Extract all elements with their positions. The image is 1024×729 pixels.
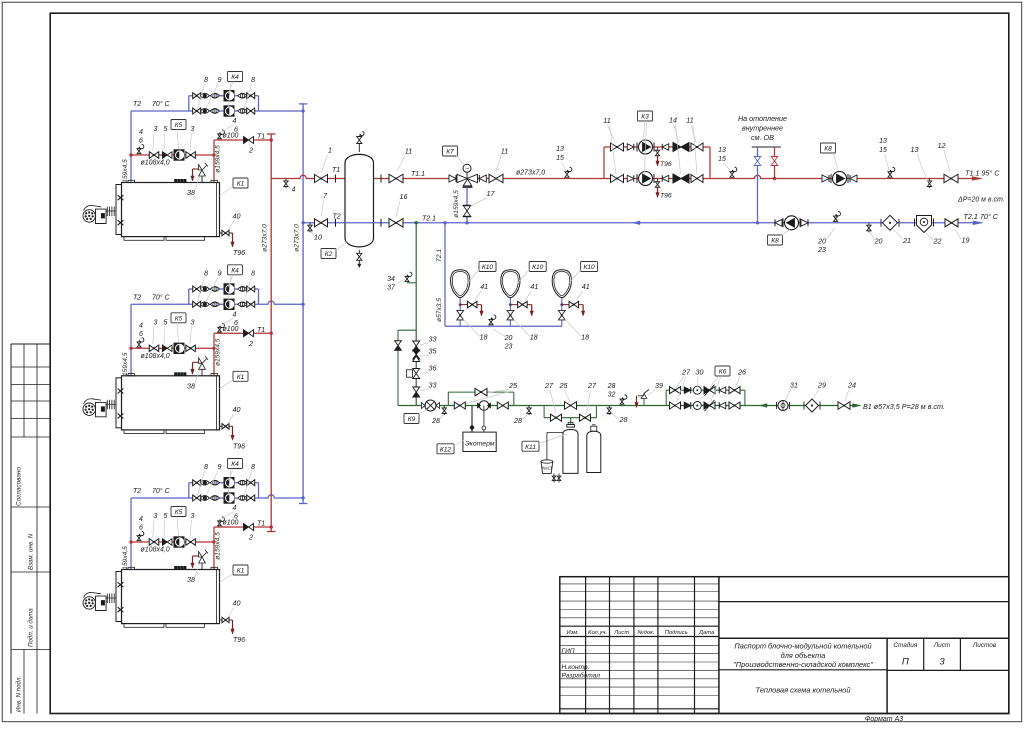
svg-text:5: 5 (164, 513, 168, 520)
svg-text:К7: К7 (446, 149, 454, 156)
svg-text:18: 18 (530, 333, 538, 342)
svg-text:18: 18 (480, 333, 488, 342)
svg-text:внутреннее: внутреннее (742, 124, 783, 133)
svg-text:25: 25 (508, 381, 518, 390)
svg-text:41: 41 (480, 282, 488, 291)
svg-text:40: 40 (233, 212, 241, 221)
svg-text:41: 41 (582, 282, 590, 291)
svg-text:4: 4 (292, 187, 296, 194)
svg-text:Т96: Т96 (233, 637, 245, 644)
svg-text:8: 8 (204, 268, 208, 277)
svg-text:6: 6 (139, 138, 143, 145)
svg-text:21: 21 (902, 236, 911, 245)
svg-text:Т1: Т1 (332, 167, 340, 174)
svg-text:13: 13 (556, 146, 564, 153)
svg-text:Т96: Т96 (660, 161, 672, 168)
svg-text:ø273х7,0: ø273х7,0 (516, 170, 545, 177)
svg-text:Подпись: Подпись (665, 630, 688, 636)
svg-text:К11: К11 (525, 444, 536, 451)
svg-text:27: 27 (681, 368, 691, 377)
svg-text:ø100: ø100 (223, 520, 239, 527)
svg-text:3: 3 (191, 319, 195, 326)
svg-text:22: 22 (933, 237, 942, 246)
svg-text:11: 11 (501, 147, 508, 156)
svg-text:39: 39 (655, 381, 663, 390)
svg-text:Взам. инв. N: Взам. инв. N (28, 533, 35, 570)
svg-text:9: 9 (218, 268, 222, 277)
svg-text:К4: К4 (231, 461, 239, 468)
svg-text:9: 9 (218, 462, 222, 471)
svg-text:Т1: Т1 (257, 521, 265, 528)
svg-text:NaCl: NaCl (542, 466, 553, 471)
svg-text:Разработал: Разработал (562, 672, 601, 680)
svg-text:Т2.1: Т2.1 (436, 249, 443, 263)
svg-text:№док.: №док. (637, 630, 654, 636)
svg-text:33: 33 (429, 335, 437, 344)
svg-text:ø159х4,5: ø159х4,5 (215, 338, 222, 366)
svg-text:12: 12 (938, 141, 946, 150)
svg-text:4: 4 (233, 505, 237, 512)
svg-text:29: 29 (817, 381, 826, 390)
svg-text:25: 25 (559, 381, 569, 390)
svg-text:40: 40 (233, 599, 241, 608)
svg-text:8: 8 (204, 462, 208, 471)
svg-text:К10: К10 (583, 264, 595, 271)
svg-text:Листов: Листов (972, 642, 997, 649)
svg-text:24: 24 (847, 381, 856, 390)
svg-text:27: 27 (587, 381, 597, 390)
svg-text:К6: К6 (719, 369, 727, 376)
svg-text:"Производственно-складской ко: "Производственно-складской комплекс" (733, 660, 873, 669)
svg-text:Дата: Дата (698, 630, 715, 636)
svg-text:20: 20 (874, 239, 883, 246)
svg-text:11: 11 (686, 116, 693, 125)
svg-text:10: 10 (314, 233, 322, 242)
svg-text:Инв. N подл.: Инв. N подл. (16, 676, 23, 712)
svg-text:К12: К12 (440, 446, 452, 453)
svg-text:17: 17 (487, 189, 496, 198)
svg-text:К5: К5 (175, 122, 183, 129)
svg-text:70° С: 70° С (152, 293, 171, 301)
svg-text:34: 34 (387, 276, 395, 283)
svg-text:35: 35 (429, 347, 438, 356)
svg-text:Экотерм: Экотерм (465, 440, 495, 447)
svg-text:30: 30 (696, 368, 704, 377)
svg-text:Т1.1: Т1.1 (411, 171, 425, 178)
svg-text:4: 4 (233, 118, 237, 125)
svg-text:2: 2 (248, 146, 253, 155)
svg-text:28: 28 (513, 416, 522, 425)
svg-text:3: 3 (154, 319, 158, 326)
svg-text:1: 1 (328, 146, 332, 155)
svg-text:26: 26 (737, 368, 746, 377)
svg-text:Т2: Т2 (333, 214, 341, 221)
svg-text:Стадия: Стадия (893, 641, 918, 649)
svg-text:Подп. и дата: Подп. и дата (28, 608, 35, 647)
svg-text:П: П (902, 657, 909, 668)
svg-text:ø100: ø100 (223, 326, 239, 333)
svg-text:К1: К1 (237, 374, 245, 381)
svg-text:Изм.: Изм. (567, 630, 579, 636)
svg-text:18: 18 (581, 333, 589, 342)
svg-text:К2: К2 (325, 251, 333, 258)
svg-text:13: 13 (911, 145, 919, 154)
svg-text:2: 2 (248, 533, 253, 542)
svg-text:К5: К5 (175, 509, 183, 516)
svg-text:К3: К3 (641, 114, 649, 121)
svg-text:Т96: Т96 (233, 443, 245, 450)
svg-text:28: 28 (607, 383, 616, 390)
svg-text:33: 33 (429, 381, 437, 390)
svg-text:36: 36 (429, 364, 437, 373)
svg-text:ø159х4,5: ø159х4,5 (215, 145, 222, 173)
svg-text:Лист: Лист (933, 642, 951, 649)
svg-text:Т96: Т96 (233, 250, 245, 257)
svg-text:11: 11 (405, 147, 412, 156)
svg-text:Тепловая схема котельной: Тепловая схема котельной (756, 686, 851, 695)
svg-text:11: 11 (603, 116, 610, 125)
svg-text:8: 8 (251, 75, 255, 84)
svg-text:Т2.1: Т2.1 (422, 216, 436, 223)
svg-text:28: 28 (619, 415, 628, 424)
svg-text:38: 38 (187, 575, 195, 584)
svg-text:8: 8 (251, 462, 255, 471)
svg-text:ø159х4,5: ø159х4,5 (453, 190, 460, 218)
svg-text:К5: К5 (175, 315, 183, 322)
svg-text:15: 15 (718, 156, 726, 163)
svg-text:В1 ø57х3,5 Р=28 м в.ст.: В1 ø57х3,5 Р=28 м в.ст. (863, 402, 945, 411)
svg-text:ø273х7,0: ø273х7,0 (262, 224, 269, 252)
svg-text:ø100: ø100 (223, 133, 239, 140)
svg-text:ø108х4,0: ø108х4,0 (141, 353, 170, 360)
svg-text:3: 3 (939, 657, 945, 668)
svg-text:6: 6 (139, 525, 143, 532)
svg-text:15: 15 (556, 155, 564, 162)
svg-text:~: ~ (465, 166, 469, 173)
svg-text:31: 31 (790, 381, 798, 390)
svg-text:38: 38 (187, 381, 195, 390)
svg-text:Т2: Т2 (133, 294, 141, 301)
svg-text:4: 4 (139, 322, 143, 329)
svg-text:19: 19 (962, 236, 970, 245)
svg-text:К4: К4 (231, 74, 239, 81)
svg-text:ø108х4,0: ø108х4,0 (141, 547, 170, 554)
svg-text:27: 27 (544, 381, 554, 390)
svg-text:4: 4 (139, 129, 143, 136)
svg-text:14: 14 (669, 116, 677, 125)
svg-text:Паспорт блочно-модульной кот: Паспорт блочно-модульной котельной (734, 642, 871, 651)
svg-text:23: 23 (817, 247, 826, 254)
svg-text:3: 3 (154, 126, 158, 133)
svg-text:К8: К8 (771, 238, 779, 245)
svg-text:Т1: Т1 (257, 327, 265, 334)
svg-text:9: 9 (218, 75, 222, 84)
svg-text:8: 8 (204, 75, 208, 84)
svg-text:Т2: Т2 (133, 101, 141, 108)
svg-text:К10: К10 (482, 264, 494, 271)
svg-text:70° С: 70° С (152, 100, 171, 108)
svg-text:20: 20 (817, 239, 826, 246)
svg-text:ø108х4,0: ø108х4,0 (141, 160, 170, 167)
svg-text:ø159х4,5: ø159х4,5 (215, 532, 222, 560)
svg-text:ø273х7,0: ø273х7,0 (293, 224, 300, 252)
svg-text:4: 4 (139, 516, 143, 523)
svg-text:Согласовано: Согласовано (16, 467, 23, 506)
svg-text:16: 16 (400, 192, 408, 201)
svg-text:На отопление: На отопление (738, 114, 787, 123)
svg-text:К8: К8 (824, 146, 832, 153)
svg-text:см. ОВ: см. ОВ (751, 133, 774, 142)
svg-text:К1: К1 (237, 181, 245, 188)
svg-text:К10: К10 (532, 264, 544, 271)
svg-text:ΔР=20 м в.ст.: ΔР=20 м в.ст. (957, 197, 1005, 204)
svg-text:3: 3 (154, 513, 158, 520)
svg-text:13: 13 (718, 147, 726, 154)
svg-text:ø57х3,5: ø57х3,5 (436, 298, 443, 322)
svg-text:15: 15 (879, 147, 887, 154)
svg-text:Т1: Т1 (257, 134, 265, 141)
svg-text:70° С: 70° С (152, 487, 171, 495)
svg-text:6: 6 (234, 127, 238, 134)
svg-text:Лист: Лист (613, 630, 629, 636)
svg-text:6: 6 (234, 320, 238, 327)
svg-text:2: 2 (248, 339, 253, 348)
svg-text:Т96: Т96 (660, 193, 672, 200)
svg-text:41: 41 (530, 282, 538, 291)
svg-text:Т1.1 95° С: Т1.1 95° С (965, 169, 1000, 178)
svg-text:Кол.уч.: Кол.уч. (588, 630, 607, 636)
svg-text:13: 13 (879, 138, 887, 145)
svg-text:Формат А3: Формат А3 (865, 716, 903, 723)
svg-text:28: 28 (431, 416, 440, 425)
svg-text:4: 4 (233, 311, 237, 318)
svg-text:Н.контр.: Н.контр. (562, 664, 590, 671)
svg-text:37: 37 (387, 285, 396, 292)
svg-text:К9: К9 (408, 416, 416, 423)
svg-text:Т2: Т2 (133, 488, 141, 495)
svg-text:5: 5 (164, 126, 168, 133)
svg-text:38: 38 (187, 188, 195, 197)
svg-text:К1: К1 (237, 568, 245, 575)
svg-text:5: 5 (164, 319, 168, 326)
svg-text:К4: К4 (231, 267, 239, 274)
svg-text:23: 23 (504, 344, 513, 351)
svg-text:3: 3 (191, 126, 195, 133)
svg-text:Т2.1 70° С: Т2.1 70° С (964, 212, 999, 221)
svg-text:ГИП: ГИП (562, 648, 575, 655)
svg-text:8: 8 (251, 268, 255, 277)
svg-text:3: 3 (191, 513, 195, 520)
svg-text:32: 32 (608, 392, 616, 399)
svg-text:6: 6 (234, 514, 238, 521)
svg-text:для объекта: для объекта (781, 651, 826, 660)
svg-text:40: 40 (233, 405, 241, 414)
svg-text:6: 6 (139, 331, 143, 338)
